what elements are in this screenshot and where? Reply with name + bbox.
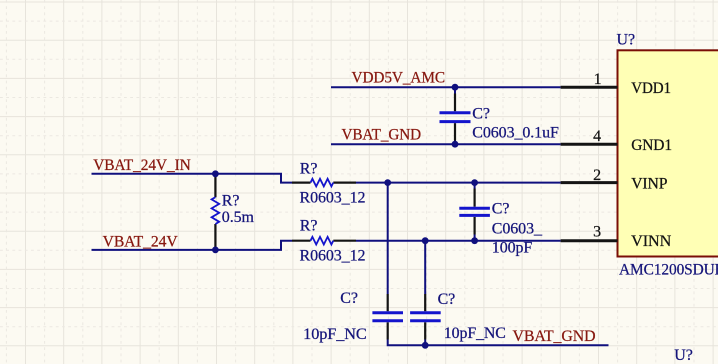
svg-text:C?: C? (438, 291, 456, 308)
svg-text:C0603_0.1uF: C0603_0.1uF (472, 125, 559, 142)
svg-text:VBAT_GND: VBAT_GND (342, 126, 422, 143)
svg-text:VDD1: VDD1 (631, 80, 671, 97)
svg-text:4: 4 (593, 128, 601, 145)
svg-text:C0603_: C0603_ (492, 221, 543, 238)
svg-text:R?: R? (300, 160, 318, 177)
svg-text:1: 1 (594, 71, 602, 88)
svg-text:R0603_12: R0603_12 (300, 248, 366, 265)
svg-text:10pF_NC: 10pF_NC (303, 326, 367, 343)
svg-text:VDD5V_AMC: VDD5V_AMC (352, 70, 446, 87)
svg-text:100pF: 100pF (492, 239, 533, 256)
svg-text:VINP: VINP (631, 176, 667, 193)
svg-text:10pF_NC: 10pF_NC (444, 325, 506, 342)
svg-text:AMC1200SDUBR: AMC1200SDUBR (619, 261, 718, 278)
svg-text:0.5m: 0.5m (222, 209, 255, 226)
svg-text:VINN: VINN (631, 233, 672, 250)
svg-text:3: 3 (593, 224, 601, 241)
svg-text:VBAT_24V_IN: VBAT_24V_IN (93, 157, 191, 174)
svg-text:C?: C? (340, 290, 358, 307)
svg-text:C?: C? (472, 105, 490, 122)
svg-text:VBAT_GND: VBAT_GND (513, 328, 596, 345)
svg-text:C?: C? (492, 200, 510, 217)
svg-text:U?: U? (617, 31, 635, 48)
svg-text:R?: R? (300, 218, 318, 235)
svg-text:R0603_12: R0603_12 (300, 189, 366, 206)
svg-text:R?: R? (222, 192, 240, 209)
svg-text:2: 2 (593, 167, 601, 184)
svg-text:U?: U? (674, 347, 692, 364)
svg-text:VBAT_24V: VBAT_24V (103, 234, 179, 251)
svg-text:GND1: GND1 (631, 137, 672, 154)
